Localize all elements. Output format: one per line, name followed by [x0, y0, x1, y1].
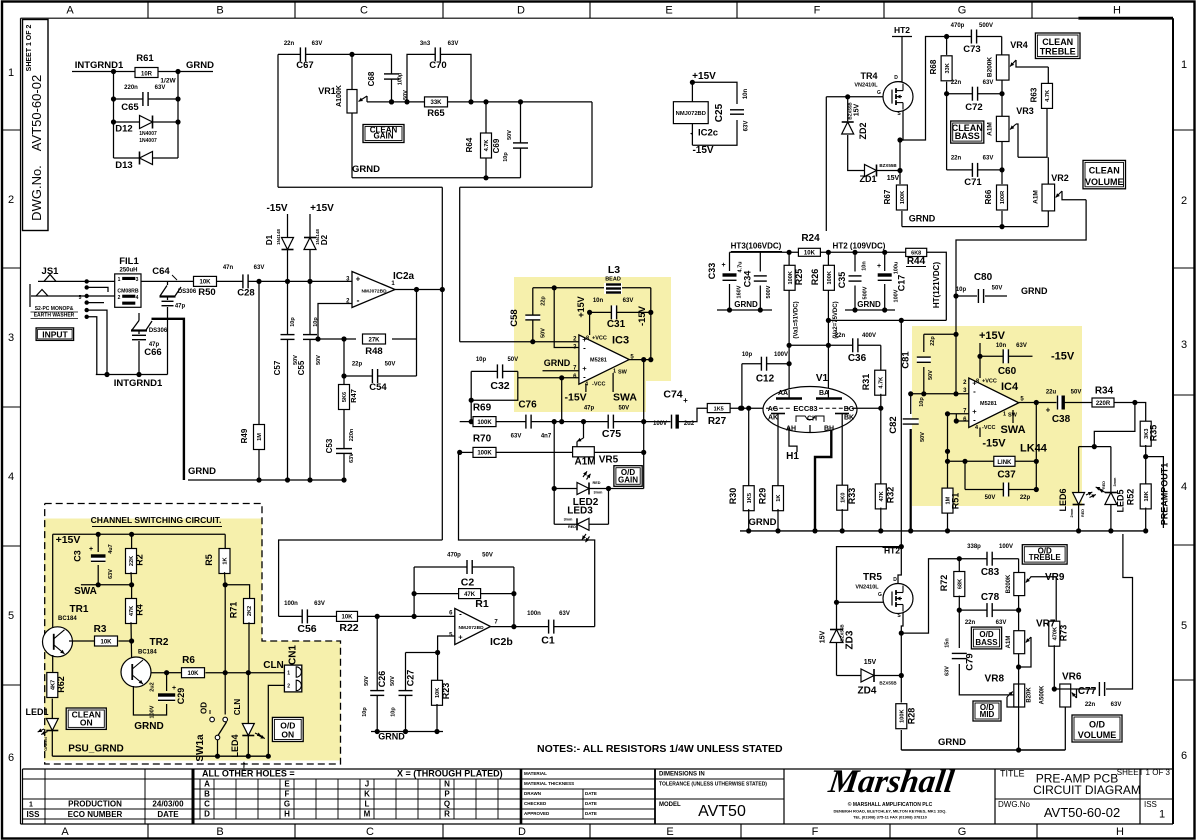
- wire HT121 horizontal: [828, 319, 946, 321]
- svg-text:C69: C69: [492, 138, 501, 153]
- svg-text:GREEN: GREEN: [44, 737, 48, 751]
- ground rail GRND IC2a: [188, 479, 345, 481]
- svg-text:C68: C68: [367, 71, 376, 86]
- valve anode plates: [776, 397, 802, 400]
- svg-text:MID: MID: [980, 710, 995, 719]
- svg-text:GRND: GRND: [134, 721, 163, 732]
- svg-text:AVT50-60-02: AVT50-60-02: [1044, 805, 1120, 820]
- svg-text:TR2: TR2: [150, 637, 169, 648]
- svg-text:50V: 50V: [992, 286, 1003, 292]
- resistor R5: [224, 534, 226, 549]
- svg-text:R63: R63: [1030, 87, 1039, 102]
- svg-text:63V: 63V: [983, 80, 994, 86]
- svg-text:DATE: DATE: [585, 791, 597, 796]
- resistor R69: [460, 421, 473, 423]
- wire IC4 pin4 stub: [979, 428, 981, 438]
- svg-text:H: H: [1113, 5, 1121, 17]
- svg-text:P: P: [444, 790, 450, 799]
- label O/D MID box: [973, 701, 1001, 721]
- transistor TR5: [883, 584, 913, 614]
- svg-text:C17: C17: [897, 275, 907, 292]
- svg-text:TITLE: TITLE: [1000, 769, 1025, 779]
- svg-text:D: D: [204, 810, 210, 819]
- svg-text:+: +: [89, 546, 93, 553]
- label O/D BASS box: [971, 627, 1001, 649]
- svg-text:ZD2: ZD2: [858, 122, 868, 139]
- svg-text:R4: R4: [135, 604, 145, 616]
- svg-text:D: D: [894, 75, 898, 81]
- svg-text:2K2: 2K2: [247, 606, 253, 616]
- svg-text:50V: 50V: [618, 406, 629, 412]
- zener ZD3: [830, 630, 843, 643]
- wire feedback loop left vertical: [413, 567, 415, 616]
- svg-text:C32: C32: [490, 380, 509, 392]
- svg-text:1K: 1K: [223, 557, 229, 564]
- wire +15V rail: [53, 533, 226, 535]
- svg-text:AA: AA: [778, 390, 788, 397]
- svg-text:R61: R61: [136, 53, 154, 64]
- svg-text:C53: C53: [325, 438, 334, 453]
- wire INTGRND1 to R61: [126, 71, 135, 73]
- svg-text:100K: 100K: [900, 710, 906, 723]
- svg-text:R73: R73: [1059, 625, 1069, 642]
- wire OD feed vertical: [459, 187, 461, 341]
- svg-text:100K: 100K: [477, 420, 492, 426]
- svg-text:22n: 22n: [965, 620, 976, 626]
- svg-text:2: 2: [1181, 195, 1187, 207]
- svg-text:63V: 63V: [945, 666, 951, 676]
- svg-text:NMJ072BD: NMJ072BD: [458, 625, 484, 631]
- svg-text:100K: 100K: [788, 271, 794, 284]
- svg-text:N: N: [444, 780, 450, 789]
- svg-text:◄: ◄: [689, 131, 694, 137]
- wire VR2 wiper to IC4 input: [956, 200, 1086, 394]
- wire pin6 to rail: [561, 378, 563, 422]
- svg-text:10K: 10K: [341, 615, 353, 621]
- svg-text:C72: C72: [965, 102, 982, 113]
- svg-text:C3: C3: [73, 550, 83, 562]
- wire TR2 emitter: [133, 686, 160, 715]
- ground rail HT2: [845, 309, 895, 311]
- svg-text:DS306: DS306: [149, 328, 168, 334]
- svg-text:R31: R31: [861, 374, 871, 391]
- svg-text:CN1: CN1: [288, 645, 299, 665]
- diode D12: [114, 121, 179, 123]
- wire jack sleeve down2: [87, 310, 107, 374]
- svg-text:M: M: [364, 810, 371, 819]
- wire R61 right vertical: [177, 72, 179, 159]
- svg-text:A1M: A1M: [1033, 190, 1040, 204]
- wire IC2b noninverting input: [438, 636, 455, 653]
- svg-text:C26: C26: [377, 671, 387, 688]
- svg-text:10K: 10K: [804, 251, 816, 257]
- svg-text:160V: 160V: [737, 285, 743, 298]
- svg-text:R23: R23: [441, 683, 451, 700]
- svg-text:CLN: CLN: [263, 660, 284, 671]
- svg-text:CLN: CLN: [233, 699, 242, 716]
- label clean bass: [951, 121, 984, 143]
- svg-text:50V: 50V: [507, 357, 518, 363]
- svg-text:3: 3: [8, 332, 14, 344]
- svg-text:J: J: [365, 780, 369, 789]
- svg-text:2: 2: [118, 295, 121, 301]
- svg-text:C31: C31: [607, 319, 626, 330]
- svg-text:47K: 47K: [464, 592, 476, 598]
- svg-text:22p: 22p: [352, 362, 363, 368]
- svg-text:SWA: SWA: [613, 392, 637, 404]
- svg-text:AVT50-60-02: AVT50-60-02: [29, 75, 44, 151]
- svg-text:10p: 10p: [919, 397, 925, 407]
- svg-text:NMJ072BD: NMJ072BD: [361, 289, 387, 295]
- wire gate control vertical: [825, 97, 827, 231]
- wire IC4 pin6 stub: [956, 420, 969, 422]
- svg-text:-: -: [357, 296, 360, 306]
- zener ZD1: [865, 165, 877, 177]
- svg-text:+15V: +15V: [310, 203, 334, 214]
- label clean gain: [363, 125, 404, 143]
- resistor R64: [485, 102, 487, 178]
- svg-text:INTGRND1: INTGRND1: [75, 60, 124, 71]
- svg-text:LED1: LED1: [25, 707, 48, 717]
- svg-text:+15V: +15V: [56, 534, 81, 546]
- svg-text:1M: 1M: [257, 433, 263, 441]
- svg-text:47p: 47p: [584, 406, 595, 412]
- svg-text:-15V: -15V: [1051, 351, 1075, 363]
- svg-text:C71: C71: [964, 177, 982, 188]
- svg-text:TREBLE: TREBLE: [1029, 553, 1062, 562]
- svg-text:68K: 68K: [958, 579, 964, 589]
- svg-text:1: 1: [1159, 809, 1165, 821]
- capacitor C70 loop: [407, 54, 471, 102]
- svg-text:+15V: +15V: [576, 296, 586, 317]
- svg-text:GRND: GRND: [544, 358, 571, 368]
- label O/D ON box: [272, 717, 303, 741]
- svg-text:C: C: [360, 5, 368, 17]
- svg-text:50V: 50V: [541, 328, 547, 338]
- svg-text:IC2a: IC2a: [393, 271, 415, 282]
- svg-text:M5281: M5281: [590, 358, 607, 364]
- diode D1: [287, 214, 289, 237]
- svg-text:+: +: [356, 275, 361, 284]
- svg-text:BZX55B: BZX55B: [848, 102, 853, 120]
- svg-text:B200K: B200K: [1006, 574, 1012, 593]
- svg-text:220n: 220n: [349, 428, 355, 441]
- svg-text:63V: 63V: [312, 41, 323, 47]
- svg-text:RED: RED: [593, 481, 601, 485]
- wire IC3 pin4 -15V stub: [585, 384, 587, 392]
- svg-text:LED4: LED4: [230, 734, 240, 757]
- wire HT2 to TR4 drain: [898, 37, 902, 82]
- svg-text:V1: V1: [816, 373, 829, 384]
- svg-text:5: 5: [1181, 620, 1187, 632]
- svg-text:C74: C74: [663, 389, 682, 401]
- svg-text:F: F: [285, 790, 290, 799]
- wire input bus to IC2a: [288, 280, 353, 282]
- svg-text:LED3: LED3: [567, 506, 593, 517]
- svg-text:IC2c: IC2c: [698, 128, 718, 139]
- transistor TR2: [121, 657, 151, 687]
- capacitor C71: [947, 169, 1002, 171]
- diode LED3: [554, 523, 608, 525]
- svg-text:63V: 63V: [349, 453, 355, 463]
- svg-text:100R: 100R: [1000, 191, 1006, 204]
- svg-text:100V: 100V: [150, 705, 156, 718]
- svg-text:24/03/00: 24/03/00: [152, 800, 184, 809]
- svg-text:47n: 47n: [223, 265, 234, 271]
- wire TR4 gate line: [826, 96, 883, 98]
- capacitor C67: [300, 47, 305, 61]
- svg-text:E: E: [284, 780, 290, 789]
- svg-text:63V: 63V: [108, 569, 114, 579]
- svg-text:4.7K: 4.7K: [484, 140, 490, 152]
- wire IC3 pin6: [518, 377, 579, 379]
- svg-text:6: 6: [8, 752, 14, 764]
- svg-text:10n: 10n: [743, 88, 749, 99]
- svg-text:A1M: A1M: [987, 122, 994, 136]
- svg-text:B: B: [216, 5, 223, 17]
- wire R34 to R35: [1114, 403, 1146, 423]
- svg-text:R22: R22: [339, 622, 358, 634]
- capacitor C53: [336, 449, 352, 454]
- svg-text:O/D: O/D: [1089, 720, 1106, 730]
- svg-text:C79: C79: [965, 653, 976, 670]
- capacitor C81: [924, 333, 957, 335]
- label INPUT box: [36, 328, 74, 341]
- wire thick protection to ground: [152, 319, 184, 480]
- inner border top line: [21, 17, 1079, 19]
- wire jack pin2: [87, 295, 115, 297]
- svg-text:AK: AK: [768, 415, 778, 422]
- svg-text:CIRCUIT DIAGRAM: CIRCUIT DIAGRAM: [1033, 783, 1141, 797]
- wire TR5 source down: [901, 613, 903, 703]
- svg-text:1: 1: [1181, 59, 1187, 71]
- svg-text:10p: 10p: [742, 352, 753, 358]
- svg-text:R25: R25: [794, 269, 804, 286]
- wire R22 to IC2b: [357, 615, 454, 617]
- potentiometer VR3: [996, 116, 1009, 141]
- svg-text:R34: R34: [1095, 386, 1114, 397]
- svg-text:IC4: IC4: [1001, 381, 1019, 393]
- transistor DS306 second: [131, 329, 147, 331]
- capacitor C2 loop: [414, 566, 514, 568]
- svg-text:8: 8: [586, 336, 589, 342]
- svg-text:5mm: 5mm: [242, 761, 246, 770]
- svg-text:22n: 22n: [951, 156, 962, 162]
- label SWA switching: [81, 584, 132, 586]
- resistor R26: [827, 252, 829, 265]
- svg-text:SHEET 1 OF 3: SHEET 1 OF 3: [1117, 768, 1171, 777]
- svg-text:4u7: 4u7: [108, 544, 114, 553]
- svg-text:-15V: -15V: [266, 203, 287, 214]
- svg-text:VOLUME: VOLUME: [1085, 177, 1124, 187]
- svg-text:R27: R27: [708, 416, 727, 427]
- svg-text:ZD4: ZD4: [858, 686, 877, 697]
- capacitor C83: [987, 552, 992, 566]
- svg-text:338p: 338p: [967, 544, 981, 550]
- svg-text:+: +: [458, 633, 463, 642]
- svg-text:100V: 100V: [653, 421, 667, 427]
- resistor R31: [880, 345, 882, 371]
- svg-text:LED5: LED5: [1116, 489, 1126, 512]
- svg-text:100u: 100u: [894, 262, 900, 275]
- svg-text:R30: R30: [728, 488, 738, 505]
- svg-text:G: G: [877, 90, 881, 96]
- svg-text:R52: R52: [1126, 489, 1136, 506]
- wire clean grnd line: [902, 226, 1048, 228]
- svg-text:R32: R32: [886, 487, 896, 504]
- svg-text:-: -: [459, 610, 462, 619]
- svg-text:R3: R3: [94, 624, 107, 635]
- resistor R72: [958, 559, 960, 573]
- svg-text:AG: AG: [768, 406, 779, 413]
- svg-text:C58: C58: [509, 309, 520, 326]
- svg-text:+VCC: +VCC: [592, 336, 607, 342]
- valve grid dashed lines: [766, 407, 791, 409]
- ground rail IC2b: [371, 731, 443, 733]
- svg-text:-: -: [583, 344, 586, 353]
- svg-text:5: 5: [8, 610, 14, 622]
- capacitor C35: [854, 252, 856, 271]
- svg-text:CHANNEL SWITCHING CIRCUIT.: CHANNEL SWITCHING CIRCUIT.: [91, 515, 222, 525]
- capacitor C33: [729, 252, 731, 271]
- resistor R71: [225, 585, 249, 600]
- svg-text:DWG.No: DWG.No: [998, 800, 1031, 809]
- svg-text:C35: C35: [837, 272, 847, 289]
- svg-text:INPUT: INPUT: [42, 329, 68, 339]
- svg-text:VR3: VR3: [1016, 106, 1034, 116]
- svg-text:1N4007: 1N4007: [139, 131, 157, 137]
- svg-text:ON: ON: [281, 730, 294, 740]
- wire IC3 output to rail: [643, 360, 645, 422]
- svg-text:APPROVED: APPROVED: [524, 811, 550, 816]
- op-amp IC2c box: [691, 82, 693, 101]
- potentiometer VR7: [1014, 631, 1025, 654]
- svg-text:10R: 10R: [141, 71, 153, 77]
- wire C76 node to LED2: [553, 422, 555, 489]
- svg-text:CLEAN: CLEAN: [1089, 166, 1120, 176]
- svg-text:L3: L3: [608, 264, 620, 276]
- svg-text:C64: C64: [152, 266, 170, 277]
- svg-text:FIL1: FIL1: [119, 256, 139, 267]
- svg-text:10n: 10n: [862, 261, 868, 271]
- svg-text:10n: 10n: [996, 343, 1007, 349]
- svg-text:-VCC: -VCC: [592, 382, 605, 388]
- svg-text:C27: C27: [406, 670, 416, 687]
- svg-text:B200K: B200K: [987, 57, 994, 78]
- svg-text:F: F: [814, 5, 821, 17]
- svg-text:NOTES:- ALL RESISTORS 1/4W UN: NOTES:- ALL RESISTORS 1/4W UNLESS STATED: [537, 743, 783, 755]
- svg-text:D: D: [517, 5, 525, 17]
- wire R50 to C28: [216, 280, 287, 282]
- svg-text:D2: D2: [320, 234, 329, 245]
- svg-text:63V: 63V: [1016, 343, 1027, 349]
- svg-text:2u2: 2u2: [150, 682, 156, 691]
- wire HT2 to gate rail: [837, 547, 902, 676]
- resistor R2: [131, 534, 133, 549]
- valve heater H1 stub: [789, 427, 797, 452]
- op-amp IC2b: [455, 608, 491, 644]
- resistor R30: [748, 408, 750, 487]
- capacitor C78: [959, 609, 1018, 611]
- svg-text:47K: 47K: [879, 491, 885, 501]
- transistor DS306 first: [167, 281, 169, 285]
- wire clean gain bottom run: [278, 186, 442, 188]
- svg-text:VR1: VR1: [318, 86, 336, 96]
- potentiometer VR9: [1018, 559, 1020, 573]
- capacitor C69: [520, 102, 522, 178]
- capacitor C56: [279, 615, 337, 617]
- svg-text:2: 2: [287, 684, 290, 690]
- capacitor C34: [759, 252, 761, 271]
- switch SW1a: [210, 717, 215, 722]
- node INTGRND1 bottom rail: [96, 374, 168, 376]
- resistor R3: [69, 640, 94, 642]
- svg-text:22p: 22p: [1020, 495, 1031, 501]
- label O/D VOLUME box: [1072, 715, 1122, 742]
- svg-text:ALL OTHER HOLES =: ALL OTHER HOLES =: [202, 769, 295, 779]
- svg-text:10K: 10K: [100, 639, 112, 645]
- svg-text:R2: R2: [135, 554, 145, 566]
- svg-text:R: R: [444, 810, 450, 819]
- dashed border channel switching: [45, 504, 341, 765]
- svg-text:50V: 50V: [507, 130, 513, 140]
- svg-text:5K6: 5K6: [342, 392, 348, 402]
- wire IC3 SW pin stub: [612, 373, 614, 392]
- svg-text:-15V: -15V: [637, 305, 648, 326]
- wire IC4 output: [1019, 402, 1093, 404]
- capacitor C76: [526, 415, 531, 429]
- resistor R67: [896, 185, 907, 210]
- wire OD vertical to C1: [459, 452, 595, 626]
- svg-text:GAIN: GAIN: [618, 475, 638, 484]
- svg-text:22p: 22p: [930, 336, 936, 346]
- capacitor C64 47p: [167, 297, 169, 301]
- node GRND top: [158, 71, 213, 73]
- svg-text:100n: 100n: [284, 601, 298, 607]
- resistor R44: [906, 248, 927, 256]
- svg-text:A: A: [66, 5, 74, 17]
- DWG number box: [23, 20, 49, 231]
- connector CN1: [284, 665, 301, 692]
- capacitor C68: [391, 54, 393, 102]
- resistor R49: [258, 281, 260, 480]
- svg-text:100V: 100V: [774, 352, 788, 358]
- svg-text:BC184: BC184: [138, 650, 157, 656]
- svg-text:RED: RED: [1081, 509, 1085, 517]
- svg-text:SHEET 1 OF 2: SHEET 1 OF 2: [26, 25, 33, 72]
- svg-text:1K: 1K: [776, 495, 782, 502]
- wire IC2a output: [395, 289, 442, 291]
- svg-text:PREAMPOUT1: PREAMPOUT1: [1160, 463, 1170, 526]
- svg-text:H: H: [1116, 826, 1124, 838]
- svg-text:C33: C33: [707, 263, 717, 280]
- wire IC3 grnd pin7: [543, 370, 579, 372]
- svg-text:DIMENSIONS IN: DIMENSIONS IN: [659, 772, 705, 778]
- svg-text:15n: 15n: [945, 638, 951, 648]
- svg-text:VOLUME: VOLUME: [1078, 730, 1117, 740]
- diode LED1: [46, 719, 58, 731]
- wire R6 to CN1: [205, 672, 284, 674]
- svg-text:MATERIAL: MATERIAL: [524, 771, 547, 776]
- svg-text:BASS: BASS: [955, 131, 980, 141]
- svg-text:C76: C76: [518, 400, 537, 411]
- svg-text:DATE: DATE: [157, 810, 179, 819]
- svg-text:C82: C82: [888, 416, 899, 433]
- link LK44 box: [948, 460, 994, 462]
- capacitor C66: [138, 331, 140, 335]
- wire TR4 source down: [900, 111, 903, 140]
- svg-text:AH: AH: [786, 426, 796, 433]
